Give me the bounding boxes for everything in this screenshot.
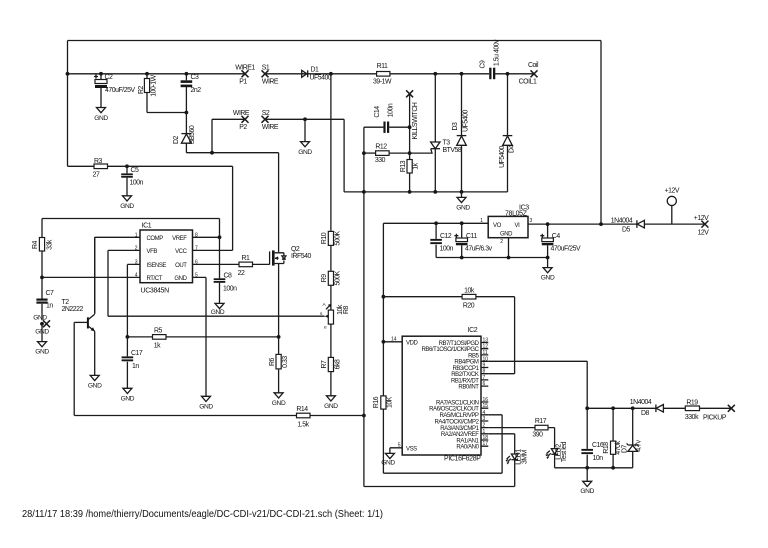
resistor R17 [488,418,554,449]
capacitor C7 [36,277,54,320]
svg-text:RB5: RB5 [468,353,479,359]
diode D4 UF5400 [499,74,516,192]
wire VSS to ground [389,448,391,454]
svg-text:+12V: +12V [694,215,709,222]
svg-text:470uF/25V: 470uF/25V [105,87,136,94]
capacitor C14 [374,103,410,133]
svg-text:RA5/MCLR/VPP: RA5/MCLR/VPP [440,413,479,419]
svg-text:10K: 10K [386,396,393,408]
capacitor C5 [121,166,143,196]
svg-text:e: e [324,326,327,331]
svg-text:RB2/TX/CK: RB2/TX/CK [451,372,479,378]
svg-text:RA0/AN0: RA0/AN0 [456,445,479,451]
svg-text:GND: GND [33,315,47,322]
svg-text:D5: D5 [622,227,631,234]
wire killswitch vertical [409,94,411,160]
svg-text:R8: R8 [343,305,350,314]
terminal WIRE P2 [242,116,249,123]
svg-text:3MM: 3MM [521,449,528,464]
wire Q2 source [278,264,280,337]
wire pickup node row [587,407,656,409]
svg-text:1N4004: 1N4004 [630,399,652,406]
svg-text:2: 2 [500,239,503,245]
svg-text:RA6/OSC2/CLKOUT: RA6/OSC2/CLKOUT [429,407,479,413]
svg-text:R3: R3 [94,158,103,165]
resistor R11 [373,63,392,86]
svg-text:R1: R1 [242,255,251,262]
svg-text:33k: 33k [46,239,53,250]
svg-text:SB560: SB560 [189,125,196,144]
svg-text:VREF: VREF [172,236,187,242]
junction R5 node [126,335,130,339]
wire T2 base down [73,322,75,415]
svg-text:100-1W: 100-1W [150,74,157,96]
resistor R13 [400,160,420,192]
svg-text:2N2222: 2N2222 [62,306,84,313]
resistor R5 [127,328,278,350]
svg-text:GND: GND [324,403,338,410]
svg-text:COIL1: COIL1 [519,79,537,86]
svg-text:1N4004: 1N4004 [611,218,633,225]
svg-text:1n: 1n [46,303,53,310]
node GND terminal [40,322,44,326]
svg-text:39-1W: 39-1W [373,79,392,86]
diode D5 1N4004 [611,218,645,234]
svg-text:27: 27 [93,172,100,179]
svg-text:330k: 330k [685,414,699,421]
svg-text:R19: R19 [686,400,698,407]
svg-text:1k: 1k [413,162,420,169]
resistor R9 [321,270,341,310]
svg-text:R5: R5 [154,328,163,335]
svg-text:RB1/RX/DT: RB1/RX/DT [451,378,479,384]
svg-text:6k8: 6k8 [335,359,342,369]
svg-text:T3: T3 [443,140,451,147]
svg-text:WIRE: WIRE [262,124,279,131]
resistor R19 [685,400,731,422]
diode D3 UF5400 [452,74,470,192]
resistor R2 [138,74,186,113]
svg-text:Test led: Test led [561,441,568,462]
svg-text:OUT: OUT [175,263,187,269]
svg-text:C17: C17 [131,350,143,357]
wire row2 left segment [212,119,245,152]
svg-text:Coil: Coil [528,62,539,69]
svg-text:R4: R4 [32,240,39,249]
wire D1 node vertical [330,74,332,232]
svg-text:D3: D3 [452,122,459,131]
svg-text:3: 3 [530,218,533,224]
svg-text:UC3845N: UC3845N [141,288,170,295]
capacitor C12 [430,223,453,257]
svg-text:RB4/PGM: RB4/PGM [454,360,478,366]
wire bottom bus [555,467,633,469]
resistor R4 [32,238,53,278]
ground below C2 [97,108,106,113]
svg-text:IC2: IC2 [468,327,478,334]
svg-text:RB0/INT: RB0/INT [458,385,479,391]
junction C5 [125,164,129,168]
junction node C3/R2 [185,111,189,115]
junction P2 drop [210,151,214,155]
svg-text:D1: D1 [311,67,320,74]
terminal +12V 12V [701,221,708,228]
svg-text:IRF540: IRF540 [291,253,312,260]
junction dots on top rail [66,72,70,76]
terminal Coil COIL1 [531,70,538,77]
wire COMP pin1 [95,237,140,313]
LED1 3MM [364,449,528,487]
svg-text:VSS: VSS [406,447,417,453]
svg-text:R16: R16 [373,396,380,408]
svg-text:RA3/AN3/CMP1: RA3/AN3/CMP1 [440,426,479,432]
wire to ground [41,324,43,342]
zener diode D7 4.7v [622,408,643,468]
capacitor C9 [480,39,501,79]
svg-text:UF5400: UF5400 [462,109,469,131]
wire gnd drop [304,119,306,141]
svg-text:C14: C14 [374,106,381,118]
terminal S2 WIRE [262,116,269,123]
svg-text:78L05Z: 78L05Z [505,211,528,218]
svg-text:GND: GND [94,115,108,122]
wire GND pin5 [193,277,207,396]
op-amp controller IC1 UC3845N box [135,223,198,295]
svg-text:ISENSE: ISENSE [147,263,167,269]
svg-text:GND: GND [580,488,594,495]
junction gnd tap [303,117,307,121]
svg-text:GND: GND [381,460,395,467]
voltage regulator IC3 78L05Z [480,205,532,258]
svg-text:PIC16F628P: PIC16F628P [444,456,481,463]
diode D1 UF5400 [302,67,332,82]
wire OUT pin6 [193,263,240,265]
svg-text:RB6/T1OSO/1/CKI/PGC: RB6/T1OSO/1/CKI/PGC [421,347,479,353]
svg-text:VFB: VFB [147,249,158,255]
resistor R16 [373,396,502,473]
ground below C5 [123,196,132,201]
wire VCC pin7 [193,249,233,251]
wire D2 row to Q2 drain [186,153,278,253]
svg-text:RA1/AN1: RA1/AN1 [456,438,479,444]
wire VFB pin2 [108,250,325,316]
svg-text:UF5400: UF5400 [499,145,506,167]
svg-text:2n2: 2n2 [191,87,202,94]
ground [38,342,47,347]
diode D8 1N4004 [630,399,686,417]
wire ISENSE pin3 [127,264,140,337]
wire R4 top row [42,219,220,238]
svg-text:GND: GND [211,309,225,316]
thyristor T3 BTV58 [431,74,462,192]
svg-text:R12: R12 [375,144,387,151]
svg-text:C4: C4 [552,233,561,240]
resistor R18 [603,408,622,468]
svg-text:10k: 10k [464,288,475,295]
svg-text:KILLSWITCH: KILLSWITCH [412,102,419,139]
wire top outer loop [68,41,602,225]
wire snubber bus y=191.9 [344,191,507,193]
svg-text:10n: 10n [593,455,604,462]
microcontroller IC2 PIC16F628P [383,327,488,463]
svg-text:VCC: VCC [175,249,187,255]
svg-text:100n: 100n [388,103,395,117]
svg-text:PICKUP: PICKUP [703,415,727,422]
svg-text:R14: R14 [296,406,308,413]
wire main top rail y=73.8 [68,73,535,75]
svg-text:T2: T2 [62,299,70,306]
svg-text:500K: 500K [335,231,342,246]
resistor R14 [74,406,364,429]
svg-text:100n: 100n [130,180,144,187]
svg-text:C3: C3 [191,74,200,81]
svg-text:R18: R18 [603,442,610,454]
svg-text:S1: S1 [262,65,270,72]
svg-text:C2: C2 [105,74,114,81]
capacitor C16 [581,408,604,468]
svg-text:VI: VI [515,223,521,229]
svg-text:GND: GND [272,400,286,407]
capacitor C4 [540,224,581,257]
svg-text:GND: GND [174,276,187,282]
svg-text:S2: S2 [262,110,270,117]
svg-text:RB3/CCP1: RB3/CCP1 [453,366,480,372]
svg-text:GND: GND [199,404,213,411]
svg-text:P2: P2 [239,124,247,131]
potentiometer R8 10k [320,302,350,357]
svg-text:C12: C12 [440,233,452,240]
svg-text:D7: D7 [622,444,629,453]
resistor R7 [321,357,341,395]
svg-text:R7: R7 [321,360,328,369]
svg-text:R13: R13 [400,160,407,172]
wire VREF pin8 [193,236,220,238]
svg-text:GND: GND [120,203,134,210]
svg-text:500K: 500K [335,270,342,285]
svg-text:R10: R10 [321,232,328,244]
svg-text:COMP: COMP [147,236,164,242]
terminal PICKUP [728,405,735,412]
svg-text:IC1: IC1 [142,223,152,230]
svg-text:1k: 1k [154,343,161,350]
wire RA2 to LED1 [488,434,514,454]
svg-text:RT/CT: RT/CT [147,276,163,282]
diode D2 SB560 [173,113,196,153]
svg-text:+12V: +12V [665,188,680,195]
svg-text:1.5k: 1.5k [297,422,309,429]
svg-text:GND: GND [35,349,49,356]
svg-text:RA7/ASC1/CLKIN: RA7/ASC1/CLKIN [436,400,479,406]
svg-text:0.33: 0.33 [282,356,289,368]
svg-text:R11: R11 [377,63,388,70]
svg-text:390: 390 [532,432,543,439]
svg-text:VDD: VDD [406,341,418,347]
ground bottom [586,468,588,482]
svg-text:1.5u 400v: 1.5u 400v [494,39,501,66]
svg-text:C9: C9 [480,60,487,69]
wire regulator ground bus [436,257,547,259]
svg-text:VO: VO [493,223,502,229]
svg-text:WIRE1: WIRE1 [235,65,255,72]
svg-text:WIRE: WIRE [233,110,250,117]
svg-text:12V: 12V [698,230,710,237]
transistor Q2 IRF540 [270,246,312,266]
svg-text:GND: GND [541,275,555,282]
svg-text:100n: 100n [223,286,237,293]
svg-text:GND: GND [121,396,135,403]
wire C14 branch vertical [364,127,384,486]
resistor R10 [321,231,341,272]
svg-text:R2: R2 [138,85,145,94]
svg-text:GND: GND [88,383,102,390]
svg-text:1n: 1n [132,363,139,370]
svg-text:R17: R17 [535,418,547,425]
ground [301,142,310,147]
capacitor C17 [122,337,143,388]
resistor R6 [269,337,289,393]
wire 5V rail [383,223,488,396]
capacitor C3 [181,74,202,113]
svg-text:GND: GND [298,149,312,156]
svg-text:D4: D4 [508,144,515,153]
resistor R20 [383,288,514,374]
svg-text:470uF/25V: 470uF/25V [551,246,582,253]
svg-text:28/11/17 18:39 /home/thierry/: 28/11/17 18:39 /home/thierry/Documents/e… [22,509,383,520]
svg-text:C8: C8 [224,273,233,280]
svg-text:GND: GND [456,205,470,212]
terminal S1 WIRE [262,70,269,77]
svg-text:47uF/6.3v: 47uF/6.3v [465,246,493,253]
resistor R1 [238,255,270,277]
capacitor C11 [454,223,492,257]
resistor R3 [68,158,233,250]
svg-text:P1: P1 [239,79,247,86]
transistor T2 2N2222 [62,237,95,375]
svg-text:R9: R9 [321,274,328,283]
ground on bus [461,192,463,198]
resistor R12 [362,144,432,164]
svg-text:D2: D2 [173,135,180,144]
wire row2 right segment [265,119,344,192]
+12V supply symbol [665,188,680,225]
wire RB4 row to pickup node [488,361,587,408]
svg-text:GND: GND [500,232,513,238]
terminal WIRE1 P1 [242,70,249,77]
svg-text:C5: C5 [131,167,140,174]
svg-text:RA4/TOCKI/CMP2: RA4/TOCKI/CMP2 [434,419,479,425]
pin stubs right [481,343,488,447]
junction RT/CT row [40,276,44,280]
pin stubs left [383,342,402,448]
svg-text:R20: R20 [463,303,475,310]
svg-text:Q2: Q2 [291,246,300,253]
svg-text:100n: 100n [440,246,454,253]
capacitor C8 [214,237,237,303]
svg-text:RA2/AN2/VREF: RA2/AN2/VREF [441,432,479,438]
svg-text:UF5400: UF5400 [310,75,332,82]
svg-text:WIRE: WIRE [262,79,279,86]
svg-text:BTV58: BTV58 [443,147,462,154]
LED2 Test led [545,441,568,467]
svg-text:D8: D8 [641,410,650,417]
svg-text:C11: C11 [466,233,477,240]
svg-text:330: 330 [375,157,386,164]
svg-text:RB7/T1OSI/PGD: RB7/T1OSI/PGD [439,341,480,347]
terminal KILLSWITCH [406,90,413,97]
capacitor C2 [94,74,136,108]
wire 12V rail [528,223,705,225]
svg-text:R6: R6 [269,357,276,366]
wire RT/CT pin4 [42,276,140,278]
svg-text:C7: C7 [46,290,55,297]
svg-text:4.7v: 4.7v [636,439,643,451]
svg-text:22: 22 [238,270,245,277]
